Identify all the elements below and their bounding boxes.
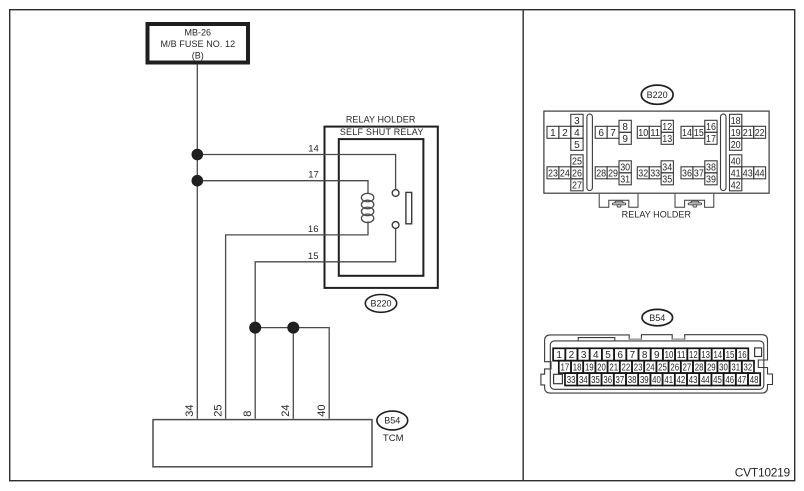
svg-text:40: 40: [731, 156, 741, 167]
svg-text:24: 24: [646, 362, 655, 373]
svg-text:8: 8: [622, 122, 628, 133]
svg-text:29: 29: [608, 168, 618, 179]
svg-text:31: 31: [620, 174, 630, 185]
svg-text:30: 30: [620, 162, 630, 173]
svg-text:1: 1: [556, 350, 562, 361]
svg-text:13: 13: [662, 134, 672, 145]
svg-text:7: 7: [610, 128, 616, 139]
svg-text:28: 28: [596, 168, 606, 179]
svg-text:35: 35: [662, 174, 672, 185]
svg-text:RELAY HOLDER: RELAY HOLDER: [622, 210, 692, 220]
svg-text:20: 20: [731, 140, 741, 151]
svg-text:17: 17: [308, 170, 319, 181]
svg-text:28: 28: [695, 362, 704, 373]
svg-text:15: 15: [694, 128, 704, 139]
svg-text:36: 36: [682, 168, 692, 179]
svg-text:21: 21: [743, 128, 753, 139]
svg-text:22: 22: [622, 362, 631, 373]
svg-text:31: 31: [731, 362, 740, 373]
svg-text:41: 41: [664, 375, 673, 386]
svg-text:24: 24: [280, 405, 292, 417]
svg-text:23: 23: [634, 362, 643, 373]
svg-text:7: 7: [630, 350, 636, 361]
svg-text:8: 8: [642, 350, 648, 361]
svg-text:6: 6: [617, 350, 623, 361]
svg-text:6: 6: [598, 128, 604, 139]
svg-text:15: 15: [308, 251, 319, 262]
svg-text:B220: B220: [647, 90, 668, 100]
svg-text:2: 2: [562, 128, 568, 139]
svg-text:43: 43: [689, 375, 698, 386]
svg-text:5: 5: [574, 140, 580, 151]
svg-text:CVT10219: CVT10219: [735, 465, 791, 479]
svg-text:19: 19: [731, 128, 741, 139]
svg-text:25: 25: [572, 156, 582, 167]
svg-text:MB-26: MB-26: [185, 28, 212, 38]
svg-text:42: 42: [731, 180, 741, 191]
svg-text:8: 8: [242, 411, 254, 417]
svg-text:14: 14: [713, 350, 722, 361]
svg-text:17: 17: [561, 362, 570, 373]
svg-text:SELF SHUT RELAY: SELF SHUT RELAY: [340, 127, 424, 137]
svg-text:47: 47: [738, 375, 747, 386]
svg-text:35: 35: [591, 375, 600, 386]
svg-text:RELAY HOLDER: RELAY HOLDER: [346, 114, 416, 124]
svg-text:9: 9: [654, 350, 660, 361]
svg-text:34: 34: [662, 162, 672, 173]
svg-text:34: 34: [184, 405, 196, 417]
svg-text:23: 23: [548, 168, 558, 179]
svg-text:39: 39: [706, 174, 716, 185]
svg-text:36: 36: [603, 375, 612, 386]
svg-text:16: 16: [308, 224, 319, 235]
svg-text:5: 5: [605, 350, 611, 361]
svg-text:(B): (B): [192, 50, 204, 60]
svg-text:19: 19: [585, 362, 594, 373]
svg-text:24: 24: [560, 168, 570, 179]
svg-text:B54: B54: [649, 313, 665, 323]
svg-text:27: 27: [572, 180, 582, 191]
svg-text:16: 16: [738, 350, 747, 361]
svg-text:26: 26: [572, 168, 582, 179]
svg-text:29: 29: [707, 362, 716, 373]
svg-text:B54: B54: [384, 416, 400, 426]
svg-text:25: 25: [212, 405, 224, 417]
svg-text:18: 18: [731, 116, 741, 127]
svg-text:32: 32: [638, 168, 648, 179]
svg-text:14: 14: [682, 128, 692, 139]
svg-text:13: 13: [701, 350, 710, 361]
svg-text:44: 44: [701, 375, 710, 386]
svg-text:15: 15: [726, 350, 735, 361]
svg-text:40: 40: [652, 375, 661, 386]
svg-text:38: 38: [706, 162, 716, 173]
svg-text:46: 46: [725, 375, 734, 386]
svg-text:42: 42: [677, 375, 686, 386]
svg-text:B220: B220: [370, 299, 391, 309]
svg-text:39: 39: [640, 375, 649, 386]
svg-text:12: 12: [662, 122, 672, 133]
svg-text:26: 26: [670, 362, 679, 373]
svg-text:12: 12: [689, 350, 698, 361]
svg-text:27: 27: [683, 362, 692, 373]
svg-text:16: 16: [706, 122, 716, 133]
svg-text:32: 32: [744, 362, 753, 373]
svg-text:10: 10: [638, 128, 648, 139]
svg-text:48: 48: [750, 375, 759, 386]
svg-text:45: 45: [713, 375, 722, 386]
svg-text:1: 1: [550, 128, 556, 139]
svg-text:11: 11: [650, 128, 660, 139]
svg-text:4: 4: [574, 128, 580, 139]
svg-text:41: 41: [731, 168, 741, 179]
svg-text:37: 37: [616, 375, 625, 386]
svg-text:3: 3: [574, 116, 580, 127]
svg-text:9: 9: [622, 134, 628, 145]
svg-text:20: 20: [597, 362, 606, 373]
svg-text:37: 37: [694, 168, 704, 179]
svg-text:3: 3: [581, 350, 587, 361]
svg-text:14: 14: [308, 143, 319, 154]
svg-text:21: 21: [609, 362, 618, 373]
svg-text:34: 34: [579, 375, 588, 386]
svg-text:TCM: TCM: [383, 433, 404, 444]
svg-text:22: 22: [755, 128, 765, 139]
svg-text:18: 18: [573, 362, 582, 373]
svg-text:M/B FUSE NO. 12: M/B FUSE NO. 12: [161, 39, 236, 49]
svg-text:33: 33: [567, 375, 576, 386]
svg-text:17: 17: [706, 134, 716, 145]
svg-text:33: 33: [650, 168, 660, 179]
svg-text:38: 38: [628, 375, 637, 386]
svg-text:11: 11: [677, 350, 686, 361]
svg-text:4: 4: [593, 350, 599, 361]
svg-text:25: 25: [658, 362, 667, 373]
svg-text:40: 40: [316, 405, 328, 417]
svg-text:10: 10: [665, 350, 674, 361]
svg-text:44: 44: [755, 168, 765, 179]
svg-text:43: 43: [743, 168, 753, 179]
svg-text:30: 30: [719, 362, 728, 373]
svg-text:2: 2: [569, 350, 575, 361]
